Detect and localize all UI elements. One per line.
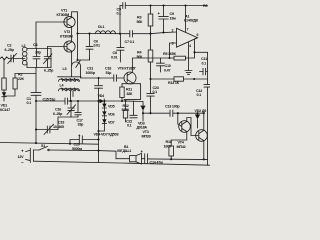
svg-text:DL1: DL1	[98, 25, 104, 29]
capacitor C23	[147, 79, 154, 113]
switch S1	[33, 146, 49, 150]
svg-text:VD6: VD6	[108, 113, 115, 117]
resistor R3	[148, 6, 153, 51]
wire VT4 emitter up	[203, 113, 205, 130]
top power rail right part	[125, 5, 207, 7]
node VT1 collector junction	[76, 32, 78, 34]
svg-text:R6: R6	[203, 4, 207, 8]
ground	[185, 71, 192, 75]
zener VD1	[2, 92, 6, 101]
headphone cap	[200, 68, 208, 75]
node VD chain junction	[103, 100, 105, 102]
svg-text:C13 100p: C13 100p	[165, 104, 180, 108]
wire L4 leads down	[70, 91, 72, 101]
wire VT1 emitter to VT2 collector	[71, 27, 73, 42]
wire VT2 base to tank	[48, 47, 68, 49]
node R3 top junction	[149, 4, 151, 6]
svg-text:3: 3	[172, 42, 174, 46]
ground bus left	[0, 143, 99, 145]
resistor R2	[4, 74, 36, 97]
capacitor C4	[33, 49, 40, 68]
wire VT6 collector up	[132, 58, 160, 72]
svg-text:0.1: 0.1	[202, 61, 207, 65]
inductor L4 winding	[59, 88, 80, 91]
node output junction	[193, 51, 195, 53]
svg-text:0.1: 0.1	[197, 93, 202, 97]
capacitor C15	[65, 98, 68, 104]
node divider junction	[149, 33, 151, 35]
svg-text:0.01: 0.01	[111, 55, 117, 59]
capacitor C12	[204, 85, 210, 88]
wire VT3 base lead	[178, 124, 182, 127]
antenna input squiggle	[0, 57, 9, 60]
diode VD7	[102, 116, 106, 124]
capacitor C9	[159, 6, 169, 33]
speaker B1	[116, 153, 142, 164]
capacitor C7	[130, 31, 151, 38]
node VD3 row junction	[142, 112, 144, 114]
diode VD3	[141, 102, 145, 122]
svg-text:C7 0.1: C7 0.1	[125, 40, 135, 44]
svg-text:51p: 51p	[106, 71, 113, 75]
wire R13 row	[151, 78, 175, 80]
inductor L2	[22, 47, 27, 65]
tank box right edge	[50, 49, 52, 68]
svg-text:L3: L3	[63, 67, 67, 71]
inductor L3 winding	[59, 79, 80, 82]
svg-text:6..25p: 6..25p	[44, 69, 54, 73]
wire L3 right to C21 node	[81, 77, 99, 78]
wire op-amp output	[195, 38, 208, 52]
svg-text:C14 47м: C14 47м	[150, 160, 164, 164]
capacitor C8	[117, 34, 124, 62]
wire plus rail	[49, 150, 116, 159]
capacitor C17	[75, 101, 81, 117]
right edge vertical wire lower	[207, 87, 209, 165]
resistor R13	[174, 77, 184, 81]
wire pin2 input	[151, 32, 177, 34]
top power rail	[120, 5, 123, 7]
node VT3 base junction	[177, 112, 179, 114]
svg-text:10..465: 10..465	[53, 125, 64, 129]
svg-text:VD7: VD7	[108, 121, 115, 125]
capacitor C5	[123, 3, 126, 9]
node chain bottom junction	[97, 130, 99, 132]
wire pin7 supply	[185, 6, 187, 33]
node pin7 rail junction	[184, 4, 186, 6]
right edge vertical wire	[207, 52, 209, 84]
node plus rail junction	[97, 150, 99, 152]
node C9 rail junction	[162, 4, 164, 6]
node C20 right junction	[97, 138, 99, 140]
trimmer capacitor C19	[36, 124, 58, 134]
resistor R12	[123, 101, 127, 122]
trimmer capacitor C3	[44, 49, 53, 68]
capacitor C10	[157, 58, 165, 72]
node C16 junction	[70, 100, 72, 102]
svg-text:82К: 82К	[127, 92, 134, 96]
svg-text:56К: 56К	[137, 20, 144, 24]
node C19 junction	[35, 128, 37, 130]
svg-text:6..25p: 6..25p	[53, 112, 63, 116]
svg-text:МП39: МП39	[142, 134, 151, 138]
svg-text:0.1: 0.1	[127, 124, 132, 128]
svg-text:R5 365К: R5 365К	[163, 52, 177, 56]
trimmer capacitor C2	[8, 53, 17, 63]
capacitor C14	[142, 154, 208, 164]
svg-text:КТ303М: КТ303М	[60, 34, 73, 38]
svg-text:−: −	[21, 160, 24, 165]
resistor R5	[174, 56, 186, 60]
wire VD4 out	[104, 100, 124, 102]
wire VT4 base lead	[196, 135, 199, 137]
wire R5 to output	[186, 52, 195, 58]
node R4 bottom junction	[149, 78, 151, 80]
diode VD4	[100, 99, 105, 103]
main left vertical wire	[35, 68, 37, 93]
wire row to VT4 emitter	[198, 112, 204, 114]
node VT4 emitter junction	[203, 112, 205, 114]
svg-text:R11: R11	[126, 88, 132, 92]
wire L4 second lead	[72, 91, 74, 97]
node R12 top junction	[124, 100, 126, 102]
capacitor C6	[86, 34, 93, 60]
tank bottom wire	[27, 63, 51, 68]
svg-text:VD5: VD5	[108, 105, 115, 109]
node collector tap junction	[76, 59, 78, 61]
svg-text:05ГДШ-1: 05ГДШ-1	[117, 149, 131, 153]
svg-text:0.01: 0.01	[94, 44, 100, 48]
wire VD7 to C21 line	[99, 124, 105, 131]
wire pin3	[170, 43, 177, 58]
wire C2 to L2	[13, 58, 24, 60]
node R11 bottom junction	[121, 100, 123, 102]
battery GB1	[26, 148, 34, 162]
svg-text:0.1: 0.1	[117, 12, 122, 16]
wire pin4 to ground	[188, 42, 190, 71]
node C23 bottom junction	[149, 112, 151, 114]
svg-text:R13 1К: R13 1К	[168, 81, 180, 85]
node C21 detector junction	[97, 100, 99, 102]
resistor R1	[2, 59, 6, 93]
transistor VT3	[179, 121, 191, 133]
node C21 top junction	[97, 77, 99, 79]
wire C16 C17 bottoms	[58, 117, 78, 130]
svg-text:19м: 19м	[170, 16, 177, 20]
node C20 left junction	[69, 143, 71, 145]
svg-text:C15 51p: C15 51p	[43, 98, 57, 102]
wire C10 top to pin3 row	[161, 57, 170, 59]
node R10 bottom junction	[170, 158, 172, 160]
op-amp U1 triangle	[177, 28, 198, 47]
diode VD2	[195, 113, 199, 128]
IF wire y33.5	[78, 33, 130, 35]
svg-text:2: 2	[172, 29, 174, 33]
node bus junctions	[35, 142, 37, 144]
node rail drop junction	[119, 33, 121, 35]
svg-text:VT1: VT1	[61, 9, 67, 13]
capacitor C13	[170, 110, 198, 117]
svg-text:VT6 КТ315Г: VT6 КТ315Г	[118, 66, 138, 70]
resistor R11	[120, 84, 124, 101]
svg-text:39p: 39p	[35, 51, 42, 55]
wire R13 to right edge	[184, 78, 208, 80]
diode VD6	[102, 108, 106, 116]
wire VT6 emitter	[122, 82, 132, 85]
inductor L3 hairpin	[72, 62, 81, 77]
svg-text:12V: 12V	[18, 155, 25, 159]
wire detector to VD3	[124, 100, 143, 103]
node left vertical junction	[35, 100, 37, 102]
resistor R10	[169, 146, 174, 159]
capacitor C20	[70, 136, 99, 144]
wire VT1 base from tank vertical	[36, 22, 67, 49]
transistor VT2	[64, 41, 75, 52]
wire audio row y113	[143, 112, 170, 114]
trimmer capacitor C16	[67, 101, 76, 117]
transistor VT4	[196, 130, 208, 142]
wire VT2 emitter down to L3	[71, 51, 73, 66]
svg-text:22К: 22К	[18, 77, 25, 81]
svg-text:К140УД8: К140УД8	[184, 19, 198, 23]
diode VD5	[102, 101, 106, 108]
svg-text:+: +	[21, 149, 24, 154]
wire VT3 collector down	[171, 132, 187, 146]
wire top rail drop	[119, 6, 121, 34]
wire detector bus after C15	[68, 100, 100, 102]
svg-text:0.1: 0.1	[27, 101, 32, 105]
wire VT3 emitter to VT4 base	[187, 118, 196, 136]
svg-text:МП42: МП42	[177, 145, 186, 149]
svg-text:1000p: 1000p	[86, 71, 96, 75]
transformer core	[58, 76, 82, 78]
svg-text:КС147: КС147	[0, 108, 10, 112]
resistor R4	[148, 50, 153, 79]
svg-text:7: 7	[187, 28, 189, 32]
tank top wire	[27, 49, 51, 50]
capacitor C18	[99, 75, 125, 81]
wire emitter box right side	[124, 84, 141, 100]
wire VT3 base drop	[177, 113, 179, 124]
node C17 junction	[77, 100, 79, 102]
wire minus rail bus	[33, 161, 210, 165]
tuning slug T-bar	[76, 58, 90, 68]
transistor VT1	[64, 16, 75, 27]
node L4 junction	[69, 100, 71, 102]
capacitor C21	[95, 78, 103, 163]
svg-text:6..25p: 6..25p	[5, 48, 15, 52]
svg-text:33p: 33p	[78, 123, 85, 127]
capacitor C1	[31, 93, 41, 144]
node C9 bottom junction	[162, 31, 164, 33]
node pin3-C10 junction	[168, 57, 170, 59]
transistor VT6	[124, 72, 136, 84]
svg-text:6: 6	[197, 33, 199, 37]
capacitor C22	[130, 101, 137, 118]
wire VT4 collector down	[203, 141, 205, 160]
inductor DL1	[95, 31, 115, 34]
wire VT1 collector up to top loop	[72, 12, 78, 60]
svg-text:VD4-VD7 КД503: VD4-VD7 КД503	[94, 132, 119, 136]
wire detector bus y101	[36, 100, 65, 102]
node C6 junction	[88, 33, 90, 35]
svg-text:0.47: 0.47	[164, 68, 170, 72]
node VT4 collector junction	[203, 158, 205, 160]
node VD2 junction	[196, 112, 198, 114]
node output-R13 junction	[193, 78, 195, 80]
svg-text:КТ303М: КТ303М	[57, 13, 70, 17]
